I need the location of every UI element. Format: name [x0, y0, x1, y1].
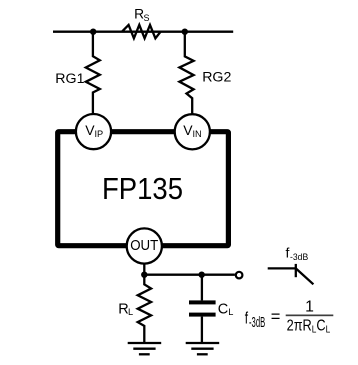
- resistor RL: [138, 275, 151, 343]
- svg-text:RG2: RG2: [202, 70, 231, 86]
- svg-text:L: L: [228, 307, 233, 317]
- node junction J4: [199, 272, 205, 278]
- svg-text:IN: IN: [193, 129, 202, 139]
- node junction J3: [141, 272, 147, 278]
- resistor RG2: [179, 32, 193, 115]
- svg-text:f: f: [245, 310, 249, 328]
- pin circle VIN: [175, 114, 210, 149]
- svg-text:-3dB: -3dB: [249, 315, 265, 331]
- svg-text:OUT: OUT: [130, 238, 158, 254]
- svg-text:2πRLCL: 2πRLCL: [287, 317, 331, 335]
- node junction J1: [90, 29, 96, 35]
- svg-text:FP135: FP135: [102, 171, 183, 206]
- svg-text:1: 1: [305, 299, 314, 316]
- wire output net: [144, 274, 235, 276]
- svg-text:IP: IP: [95, 129, 104, 139]
- svg-text:S: S: [144, 13, 150, 23]
- wire CL stem: [201, 275, 203, 301]
- ground G2: [186, 343, 220, 354]
- formula fraction bar: [286, 315, 334, 317]
- ground G1: [128, 343, 162, 354]
- capacitor CL: [189, 300, 216, 316]
- svg-text:=: =: [271, 308, 281, 326]
- resistor RS: [122, 25, 161, 38]
- graph response curve: [268, 264, 314, 284]
- resistor RG1: [86, 32, 100, 114]
- wire OUT stem: [143, 264, 145, 275]
- node junction J2: [182, 29, 188, 35]
- svg-text:-3dB: -3dB: [290, 252, 308, 263]
- svg-text:L: L: [128, 307, 133, 317]
- wire CL to ground: [201, 317, 203, 343]
- op-amp box U1 FP135: [58, 132, 229, 246]
- svg-text:f: f: [286, 244, 290, 260]
- pin circle VIP: [76, 114, 111, 149]
- svg-text:RG1: RG1: [55, 71, 84, 87]
- wire top rail: [53, 31, 233, 33]
- pin circle OUT: [127, 228, 162, 263]
- svg-text:C: C: [218, 302, 228, 318]
- open terminal: [236, 272, 243, 279]
